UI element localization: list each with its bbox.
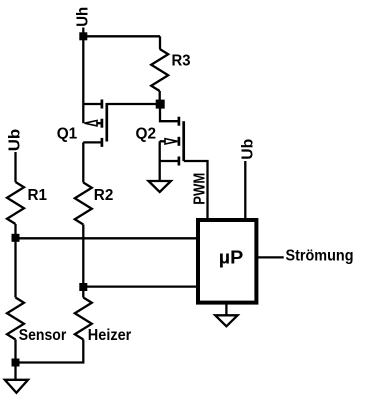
Q2 drain channel tick bbox=[178, 117, 181, 126]
wire R3 bottom lead bbox=[159, 91, 161, 104]
svg-text:R1: R1 bbox=[28, 187, 48, 204]
wire Sensor bottom lead bbox=[14, 340, 16, 363]
wire R3 top lead bbox=[159, 36, 161, 49]
Q2 bulk arrow (n-channel) bbox=[165, 139, 178, 144]
resistor Sensor bbox=[7, 298, 24, 340]
wire ground stub bbox=[14, 363, 16, 380]
wire Heizer node to uP pin bbox=[83, 285, 198, 287]
svg-text:Heizer: Heizer bbox=[88, 327, 132, 344]
wire Q1 drain to R2 bbox=[82, 142, 84, 182]
svg-text:Ub: Ub bbox=[7, 129, 24, 152]
junction ground node bbox=[12, 359, 20, 367]
transistor Q1 bbox=[83, 100, 107, 147]
resistor R1 bbox=[7, 182, 24, 224]
wire Q1 gate to junction bbox=[107, 103, 160, 105]
resistor Heizer bbox=[75, 298, 92, 340]
Q1 source stub bbox=[83, 103, 101, 105]
Q1 source channel tick bbox=[101, 100, 104, 109]
wire R2 to Heizer node bbox=[82, 225, 84, 288]
ground symbol left bbox=[5, 380, 28, 393]
Q1 bulk arrow (p-channel) bbox=[85, 121, 98, 126]
resistor R2 bbox=[75, 183, 92, 225]
wire R1 to sensor node bbox=[14, 224, 16, 238]
junction R1/Sensor node bbox=[12, 234, 20, 242]
wire Uh to R3 bbox=[83, 35, 160, 37]
wire Uh stub bbox=[82, 28, 84, 37]
wire uP ground stub bbox=[225, 302, 227, 315]
Q1 bulk channel tick bbox=[101, 119, 104, 128]
Q2 bulk channel tick bbox=[178, 137, 181, 146]
Q2 source channel tick bbox=[178, 157, 181, 166]
op-amp U1 microcontroller uP box bbox=[198, 220, 256, 303]
Q2 source stub bbox=[160, 160, 178, 162]
junction Uh node bbox=[79, 32, 87, 40]
svg-text:Strömung: Strömung bbox=[286, 248, 354, 265]
wire junction to Q2 drain bbox=[160, 104, 178, 121]
wire Q2 gate to uP PWM pin bbox=[184, 161, 208, 220]
wire sensor node to uP pin bbox=[16, 237, 199, 239]
svg-text:µP: µP bbox=[219, 248, 244, 268]
svg-text:PWM: PWM bbox=[192, 173, 209, 205]
wire sensor node to Sensor bbox=[14, 238, 16, 297]
resistor R3 bbox=[151, 49, 168, 91]
Q1 bulk stub bbox=[97, 122, 101, 124]
wire Heizer top lead bbox=[82, 287, 84, 298]
wire Q2 source to ground bbox=[159, 161, 161, 181]
Q1 bulk rail bbox=[82, 104, 84, 123]
svg-text:Uh: Uh bbox=[75, 7, 92, 27]
ground symbol Q2 bbox=[149, 181, 171, 192]
svg-text:R2: R2 bbox=[94, 187, 114, 204]
svg-text:R3: R3 bbox=[172, 53, 191, 70]
svg-text:Q2: Q2 bbox=[136, 126, 157, 143]
transistor Q2 bbox=[160, 117, 184, 166]
Q1 gate bar bbox=[105, 103, 108, 142]
Q2 gate bar bbox=[182, 121, 185, 161]
wire uP output bbox=[256, 256, 284, 258]
svg-text:Ub: Ub bbox=[240, 139, 257, 160]
svg-text:Sensor: Sensor bbox=[19, 327, 67, 344]
wire Heizer bottom lead bbox=[16, 340, 84, 363]
wire Ub to R1 bbox=[14, 152, 16, 182]
junction R2/Heizer node bbox=[79, 283, 87, 291]
Q2 bulk stub bbox=[160, 140, 165, 142]
junction R3/Q1-gate/Q2-drain node bbox=[156, 100, 165, 109]
Q2 bulk/source rail bbox=[159, 141, 161, 161]
ground symbol uP bbox=[215, 315, 237, 326]
Q1 drain channel tick bbox=[101, 138, 104, 147]
Q1 drain stub bbox=[83, 141, 101, 143]
wire Ub to uP bbox=[244, 161, 246, 220]
svg-text:Q1: Q1 bbox=[57, 126, 78, 143]
wire Uh rail to Q1 source bbox=[82, 36, 84, 104]
